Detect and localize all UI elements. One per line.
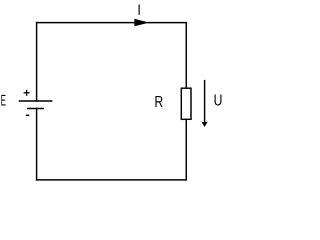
battery E negative plate <box>27 108 44 110</box>
wire top <box>37 22 187 24</box>
wire right upper <box>185 23 187 89</box>
wire right lower <box>185 119 187 180</box>
label I <box>138 5 140 15</box>
current arrow <box>134 19 149 27</box>
label + <box>24 90 30 96</box>
label R <box>155 96 162 107</box>
voltage arrow U <box>202 80 208 127</box>
wire left upper <box>36 23 38 101</box>
wire bottom <box>37 179 187 181</box>
label - <box>26 114 29 116</box>
battery E positive plate <box>19 100 53 102</box>
label U <box>215 94 222 105</box>
wire left lower <box>36 109 38 180</box>
resistor R <box>181 88 191 119</box>
label E <box>1 95 5 106</box>
